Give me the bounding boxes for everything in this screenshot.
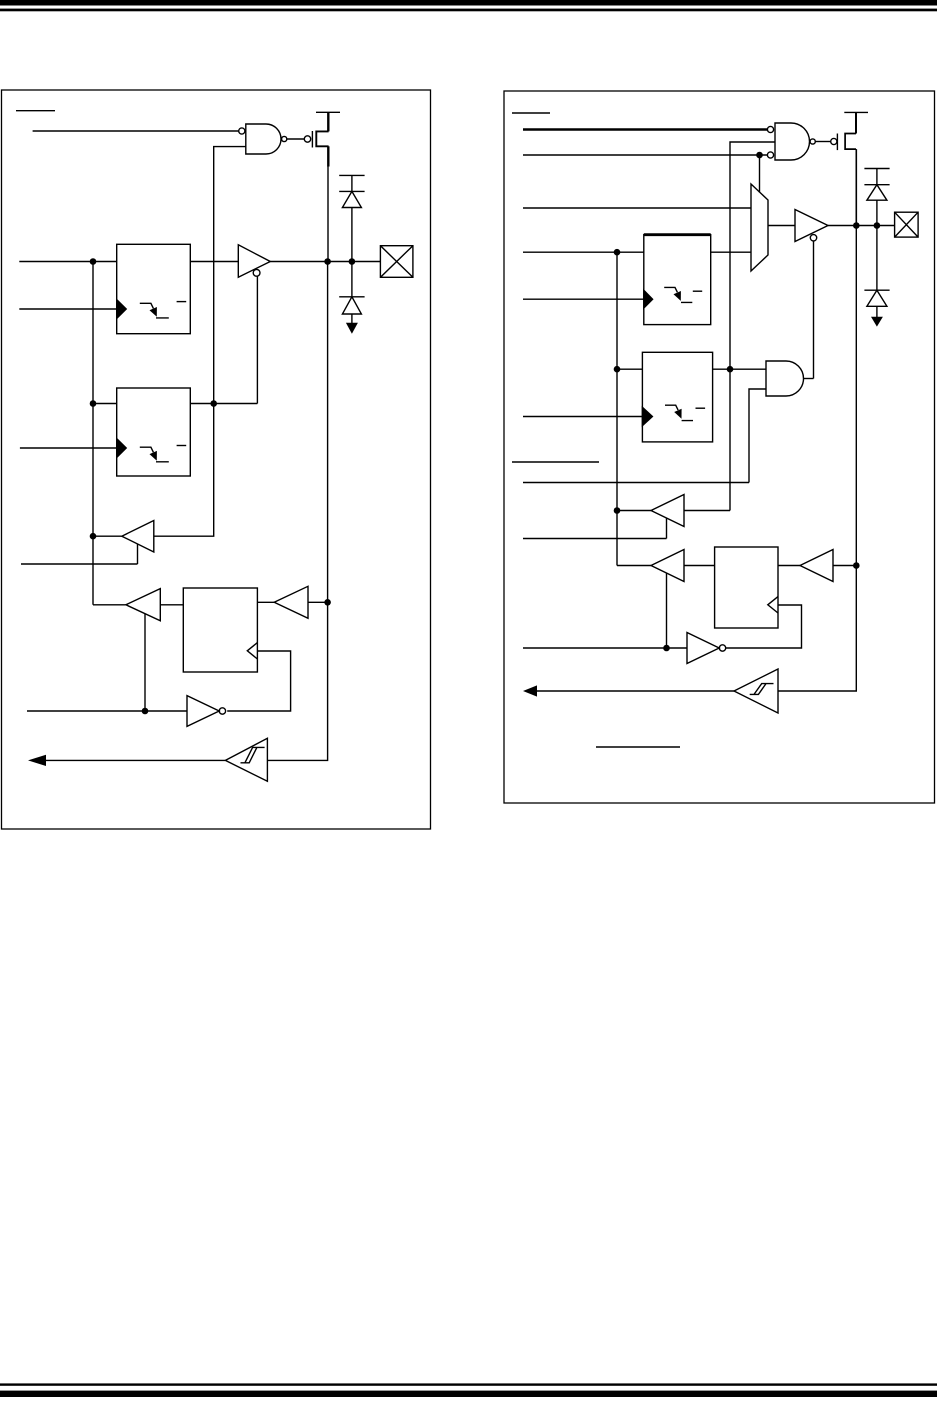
wire B4 output to U3 D	[257, 601, 274, 603]
wire ST2 output arrow line	[535, 690, 734, 692]
wire diode D3 to pad node	[876, 200, 878, 225]
VSS arrow below D4	[871, 317, 883, 327]
clock triangle U1	[117, 300, 127, 319]
data bus vertical net right diagram	[616, 252, 618, 565]
wire TMR0 output to mux input A	[523, 207, 751, 209]
latch glyph U1 Q overbar	[177, 301, 187, 303]
I/O pad box right diagram	[895, 212, 919, 237]
output bubble NAND G1	[282, 136, 287, 141]
junction dot data bus / B2 out	[90, 533, 97, 540]
wire U2-Q net down to RD-TRIS buffer input	[154, 404, 214, 537]
inverted input bubble NAND G2 pin 3	[767, 152, 773, 158]
diode D1 body	[342, 191, 361, 207]
transistor Q3 drain lead	[855, 112, 857, 133]
rd-tris buffer B2	[122, 521, 154, 553]
junction dot pin riser / B4 input	[324, 599, 331, 606]
transistor Q1 gate bar	[311, 131, 313, 148]
inverter N2	[687, 633, 719, 664]
latch glyph U1 waveform	[140, 303, 169, 318]
wire NAND G1 output to Q1 gate	[287, 138, 305, 140]
schmitt trigger ST2	[734, 669, 778, 713]
wire B2 enable	[21, 544, 138, 564]
input latch U3 box	[183, 588, 257, 672]
wire B6 output to data bus	[617, 510, 651, 512]
rd-tris buffer B6	[651, 495, 684, 527]
enable bubble buffer B1	[253, 269, 260, 276]
label overbar (bottom right diagram)	[596, 746, 680, 748]
latch glyph U5 waveform	[665, 405, 693, 420]
footer thin rule	[0, 1383, 937, 1385]
wire pad node to diode D2	[351, 262, 353, 297]
wire NAND G1 pin 2 from node Q2	[214, 147, 246, 404]
diode D4 cathode bar	[864, 289, 889, 291]
wire B1 output to pad	[270, 261, 380, 263]
wire U2 Q to node and enable riser	[190, 403, 257, 405]
inverter N1 output bubble	[219, 708, 225, 714]
footer thick rule	[0, 1391, 937, 1397]
data latch U4 box	[644, 235, 711, 325]
wire AND A1 output up to B5 enable	[804, 378, 814, 380]
junction dot pin node at diode branch	[874, 222, 881, 229]
clock marker on U3 right edge	[247, 643, 257, 659]
gate bubble transistor Q1	[304, 136, 310, 142]
wire B7 output to data bus	[617, 565, 651, 567]
rd-port buffer B3	[126, 589, 160, 621]
transistor Q3 channel	[845, 134, 856, 150]
wire B3 output to data bus	[93, 604, 126, 606]
wire B3 enable down to RD-PORT net	[144, 614, 146, 711]
wire WR-PORT clock to U1	[19, 308, 116, 310]
latch glyph U1 arrowhead	[150, 307, 157, 317]
figure frame (left diagram)	[2, 90, 431, 829]
wire mux output to buffer B5	[768, 225, 795, 227]
wire WR-PORT clock to U4	[523, 298, 644, 300]
and gate A1	[766, 361, 804, 396]
junction dot RD-PORT / B7 enable	[663, 645, 670, 652]
tris latch U2 box	[117, 388, 191, 476]
latch glyph U5 Q overbar	[696, 407, 706, 409]
diode D2 stem to VSS	[351, 314, 353, 323]
junction dot data bus / U1 D	[90, 258, 97, 265]
junction dot data bus / B6 out	[614, 507, 621, 514]
wire WR-TRIS to NAND G2 pin 3 and mux select	[523, 154, 767, 156]
data bus vertical net	[92, 262, 94, 605]
clock triangle U4	[644, 290, 653, 308]
junction dot pin node at schmitt riser	[324, 258, 331, 265]
wire data bus to U1 D input	[19, 261, 116, 263]
rd-port buffer B7	[651, 550, 684, 582]
VDD bar above diode D1	[339, 174, 364, 176]
transistor Q1 drain lead	[327, 112, 329, 131]
wire pin net to B8 input	[833, 565, 856, 567]
junction dot U5 Q node	[727, 366, 734, 373]
clock triangle U2	[117, 439, 127, 458]
wire WR-TRIS clock to U2	[20, 447, 117, 449]
transistor Q3 gate bar	[836, 134, 838, 151]
VDD bar above diode D3	[864, 168, 889, 170]
wire input latch U6 Q to B7 input	[684, 565, 715, 567]
wire U4 Q to mux input B	[711, 251, 751, 253]
wire data bus to U5 D input	[617, 368, 642, 370]
header thick rule	[0, 0, 937, 6]
diode D2 cathode bar	[339, 296, 364, 298]
tris latch U5 box	[642, 352, 712, 442]
hysteresis glyph ST1	[241, 747, 265, 762]
wire NAND G2 output to Q3 gate	[815, 141, 830, 143]
diode D3 cathode bar	[864, 184, 889, 186]
inverted input bubble NAND G2 pin 1	[767, 126, 773, 132]
output driver buffer B1	[238, 245, 270, 277]
diode D2 body	[342, 297, 361, 314]
wire B6 enable	[523, 518, 667, 539]
wire B5 enable down to AND A1 output	[813, 241, 815, 379]
wire RD-PORT input to N1	[27, 710, 187, 712]
wire WR-TRIS clock to U5	[523, 416, 642, 418]
latch glyph U4 arrowhead	[674, 291, 681, 301]
latch glyph U5 arrowhead	[674, 409, 681, 419]
wire diode D1 to pad node	[351, 208, 353, 262]
output driver buffer B5	[795, 210, 828, 242]
VSS arrow below D2	[346, 323, 358, 334]
label overbar (top-left right diagram)	[512, 112, 550, 114]
inverted input bubble NAND G1 pin 1	[239, 128, 245, 134]
junction dot data bus / U5 D	[614, 366, 621, 373]
junction dot WR-TRIS / mux select	[756, 152, 763, 159]
enable bubble buffer B5	[810, 235, 816, 241]
latch glyph U2 arrowhead	[150, 451, 157, 461]
data latch U1 box	[117, 244, 191, 333]
junction dot RD-PORT / B3 enable	[142, 708, 149, 715]
arrowhead ST1 output	[28, 755, 46, 766]
wire WR-PORT input to NAND G1	[33, 130, 239, 132]
output bubble NAND G2	[810, 139, 815, 144]
wire input latch U3 Q to B3 input	[160, 604, 183, 606]
wire data bus to U4 D input	[523, 251, 644, 253]
pin buffer B4 (TTL input)	[274, 586, 308, 618]
wire Q1 source to output node	[327, 166, 329, 262]
wire NAND G2 pin 2 from node Q4	[730, 142, 775, 511]
wire B5 output to pad	[828, 225, 895, 227]
transistor Q1 channel	[316, 131, 328, 146]
input latch U6 box	[715, 547, 778, 628]
latch glyph U2 Q overbar	[177, 445, 187, 447]
VDD rail bar for Q1	[316, 111, 340, 113]
arrowhead ST2 output	[523, 685, 537, 696]
pin buffer B8 (schmitt input)	[800, 550, 833, 582]
label overbar (top-left)	[16, 110, 55, 112]
wire data bus to U2 D input	[93, 403, 117, 405]
diode D4 body	[867, 290, 887, 306]
wire pin net to B4 input	[308, 601, 328, 603]
wire B8 output to U6 D	[778, 565, 800, 567]
diode D1 stem to VDD	[351, 175, 353, 191]
mux select wire	[759, 155, 761, 193]
wire pin net down to ST1 input	[267, 262, 327, 761]
wire U3 clock from inverter	[227, 651, 290, 711]
wire Q3 source to output node	[855, 149, 857, 225]
junction dot data bus / U2 D	[90, 400, 97, 407]
data bus thick wire to NAND G2	[523, 128, 767, 131]
figure frame (right diagram)	[504, 91, 935, 803]
wire B1 enable down to U2 Q net	[256, 276, 258, 403]
I/O pad X diagonals right diagram	[895, 212, 919, 237]
inverter N1	[187, 696, 219, 727]
wire node Q4 to B6 input	[684, 510, 730, 512]
nand gate G1	[246, 124, 281, 154]
wire U5 Q to AND A1 input	[713, 368, 766, 370]
mux M1 trapezoid	[751, 184, 768, 271]
hysteresis glyph ST2	[750, 684, 774, 695]
junction dot data bus / U4 D	[614, 249, 621, 256]
wire U6 clock from inverter N2	[726, 605, 802, 648]
data latch U4 thick top edge	[644, 233, 711, 236]
diode D4 stem to VSS	[876, 306, 878, 317]
junction dot U2 Q node	[210, 400, 217, 407]
latch glyph U4 waveform	[664, 287, 692, 302]
transistor Q1 source lead	[327, 146, 329, 166]
junction dot pin node at Q3 source	[853, 222, 860, 229]
wire U1 Q to buffer B1	[190, 261, 238, 263]
diode D3 stem to VDD	[876, 169, 878, 185]
diode D1 cathode bar	[339, 190, 364, 192]
gate bubble transistor Q3	[831, 138, 837, 144]
clock triangle U5	[642, 407, 652, 425]
latch glyph U4 Q overbar	[693, 290, 702, 292]
VDD rail bar for Q3	[844, 111, 868, 113]
nand gate G2	[775, 123, 810, 160]
wire B7 enable down to RD-PORT net	[666, 573, 668, 648]
wire ST1 output arrow line	[44, 759, 225, 761]
wire pin net down to ST2 input	[778, 226, 856, 692]
header thin rule	[0, 9, 937, 12]
junction dot pin riser / B8 input	[853, 562, 860, 569]
wire B2 output to data bus	[93, 535, 122, 537]
I/O pad box	[380, 246, 413, 278]
junction dot pin node at diode branch	[349, 258, 356, 265]
diode D3 body	[867, 185, 887, 201]
wire RD-PORT input to N2	[523, 647, 687, 649]
wire pad node to diode D4	[876, 226, 878, 291]
label overbar (middle right diagram)	[512, 461, 599, 463]
inverter N2 output bubble	[719, 645, 725, 651]
wire RD-TRIS to AND A1 lower input	[523, 389, 766, 483]
schmitt trigger ST1	[225, 738, 267, 781]
I/O pad X diagonals	[380, 246, 413, 278]
clock marker on U6 right edge	[768, 597, 778, 613]
latch glyph U2 waveform	[140, 447, 169, 462]
